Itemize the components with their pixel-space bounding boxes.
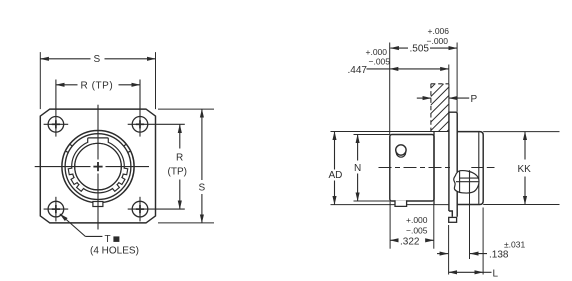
svg-text:R: R bbox=[176, 153, 183, 164]
leader arrow to BL hole for T bbox=[60, 214, 86, 237]
svg-text:(4 HOLES): (4 HOLES) bbox=[90, 246, 139, 257]
hole BR crosshair vertical bbox=[139, 197, 141, 222]
hole TL crosshair horizontal bbox=[44, 123, 69, 125]
svg-text:+.006: +.006 bbox=[428, 26, 450, 36]
svg-text:T: T bbox=[105, 234, 111, 245]
bold center crosses of mounting holes bbox=[52, 120, 144, 213]
dim N: extension lines (merge with body edges) bbox=[354, 134, 390, 136]
tab at 239deg bbox=[71, 177, 78, 184]
coupling-ring lug at +58deg (radial lines between outer circles) bbox=[124, 144, 131, 152]
hole TR crosshair vertical (merges with R(TP) extension) bbox=[139, 80, 141, 137]
dim .505: extension lines bbox=[389, 43, 391, 135]
filled square after T bbox=[113, 236, 119, 242]
bold center cross of connector bbox=[93, 162, 102, 171]
dim KK: extension lines bbox=[483, 131, 559, 133]
svg-text:−.005: −.005 bbox=[406, 226, 428, 236]
keyhole lower arc bbox=[396, 153, 405, 158]
tab at 260deg bbox=[68, 168, 73, 175]
panel hatch lines bbox=[431, 84, 449, 132]
key bump at 12 o'clock (erase ring arc then outline) bbox=[88, 138, 109, 143]
svg-text:N: N bbox=[354, 163, 361, 174]
dim .447: extension line bbox=[448, 65, 450, 84]
flange outline (front view, chamfered square) bbox=[40, 109, 155, 223]
dim .322: extension lines bbox=[389, 201, 391, 249]
svg-text:.138: .138 bbox=[489, 250, 509, 261]
svg-text:−.005: −.005 bbox=[369, 57, 391, 67]
dim N line with arrows bbox=[357, 135, 359, 161]
svg-text:S: S bbox=[199, 183, 206, 194]
svg-text:KK: KK bbox=[518, 164, 532, 175]
svg-text:+.000: +.000 bbox=[406, 215, 428, 225]
dim KK line with arrows bbox=[524, 132, 526, 160]
tab at 100deg bbox=[123, 168, 128, 175]
bayonet pin blob bbox=[454, 171, 479, 193]
mounting hole bottom-right bbox=[132, 201, 148, 217]
dim .138 arrows (outside, pointing in) bbox=[437, 253, 448, 255]
vertical centerline of connector bbox=[97, 105, 99, 230]
coupling-ring lug at -58deg bbox=[65, 144, 72, 152]
dim .138: extension lines bbox=[448, 225, 450, 275]
hole BR crosshair horizontal (extends right to R(TP) dim) bbox=[128, 208, 185, 210]
dim AD: extension lines (long, over body) bbox=[331, 131, 449, 133]
connector bayonet ring circle bbox=[72, 140, 125, 193]
svg-text:−.000: −.000 bbox=[427, 36, 449, 46]
tab at 121deg bbox=[118, 177, 125, 184]
tab at 140deg bbox=[112, 184, 119, 191]
dim P arrows bbox=[417, 97, 431, 99]
svg-text:P: P bbox=[471, 94, 478, 105]
svg-text:+.000: +.000 bbox=[366, 47, 388, 57]
front shell chamfer line bbox=[478, 132, 480, 204]
connector coupling ring circle bbox=[65, 134, 131, 200]
svg-text:S: S bbox=[94, 54, 101, 65]
hole circle in body (keyhole) bbox=[396, 145, 406, 155]
rear body (side view) bbox=[390, 135, 434, 202]
hole BL crosshair horizontal bbox=[44, 208, 69, 210]
svg-text:(TP): (TP) bbox=[168, 167, 187, 178]
dim R(TP) right: dimension line with arrows bbox=[179, 124, 181, 148]
mounting hole top-right bbox=[132, 117, 148, 133]
neck/body right edge bbox=[433, 132, 435, 205]
connector outer shell circle bbox=[62, 131, 134, 203]
dim S top: extension lines bbox=[39, 52, 41, 109]
svg-text:±.031: ±.031 bbox=[504, 240, 525, 250]
dim AD line with arrows bbox=[334, 132, 336, 170]
svg-text:.322: .322 bbox=[400, 236, 420, 247]
pin internal lines bbox=[456, 170, 479, 193]
bayonet tabs on ring bbox=[68, 168, 128, 191]
svg-text:R (TP): R (TP) bbox=[81, 81, 114, 92]
hole TL crosshair vertical (merges with R(TP) extension) bbox=[55, 80, 57, 137]
svg-text:.447: .447 bbox=[348, 65, 368, 76]
dim S right: dimension line with arrows bbox=[201, 109, 203, 180]
dim .505 line with arrows bbox=[390, 47, 408, 49]
connector insert bore circle bbox=[75, 143, 122, 190]
front shell KK cylinder bbox=[457, 132, 483, 205]
horizontal centerline of connector bbox=[35, 166, 149, 168]
wire grommet tab below body bbox=[395, 200, 407, 206]
dim S top: dimension line with arrows bbox=[40, 58, 90, 60]
insert bore circle redrawn over bump area bbox=[75, 143, 122, 190]
polarizing key rectangle at 6 o'clock bbox=[93, 202, 103, 207]
panel (hatched, dashed outline) bbox=[431, 84, 449, 132]
mounting flange plate (side view) bbox=[449, 112, 457, 217]
horizontal centerline (side view) bbox=[379, 167, 495, 169]
hole TR crosshair horizontal (extends right to R(TP) dim) bbox=[128, 123, 185, 125]
hole BL crosshair vertical bbox=[55, 197, 57, 222]
mounting hole bottom-left bbox=[48, 201, 64, 217]
svg-text:AD: AD bbox=[329, 170, 343, 181]
dim .447 line with arrows bbox=[390, 68, 400, 70]
mounting hole top-left bbox=[48, 117, 64, 133]
dim S right: extension lines bbox=[158, 108, 214, 110]
svg-text:L: L bbox=[493, 269, 499, 280]
dim L line with arrows bbox=[449, 271, 484, 273]
tab at 220deg bbox=[77, 184, 84, 191]
dim R(TP) top: dimension line with arrows bbox=[56, 84, 78, 86]
dim .322 line with arrows bbox=[390, 239, 398, 241]
dim L: extension line right bbox=[482, 208, 484, 275]
flange bottom foot bbox=[449, 217, 457, 222]
